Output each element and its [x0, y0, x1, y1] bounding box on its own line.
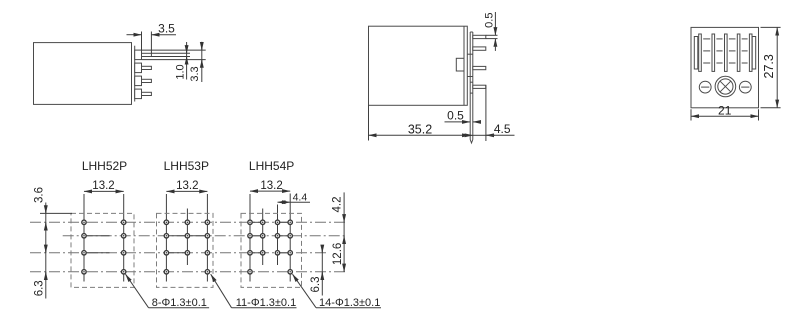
svg-text:4.4: 4.4 [293, 191, 308, 203]
svg-text:3.3: 3.3 [189, 66, 201, 81]
svg-text:13.2: 13.2 [260, 180, 282, 192]
svg-text:13.2: 13.2 [92, 180, 114, 192]
svg-text:0.5: 0.5 [447, 108, 464, 122]
svg-text:3.5: 3.5 [158, 21, 175, 35]
svg-text:LHH54P: LHH54P [249, 159, 294, 173]
svg-text:11-Φ1.3±0.1: 11-Φ1.3±0.1 [236, 297, 296, 309]
svg-text:14-Φ1.3±0.1: 14-Φ1.3±0.1 [319, 297, 380, 309]
svg-text:6.3: 6.3 [310, 277, 322, 293]
svg-text:LHH52P: LHH52P [82, 159, 127, 173]
svg-text:LHH53P: LHH53P [164, 159, 209, 173]
svg-text:12.6: 12.6 [332, 243, 344, 265]
svg-text:0.5: 0.5 [483, 13, 495, 28]
svg-text:8-Φ1.3±0.1: 8-Φ1.3±0.1 [152, 297, 207, 309]
svg-text:6.3: 6.3 [33, 280, 45, 296]
svg-text:35.2: 35.2 [408, 122, 432, 136]
svg-text:1.0: 1.0 [174, 64, 186, 79]
svg-text:4.5: 4.5 [494, 122, 511, 136]
svg-text:3.6: 3.6 [33, 187, 45, 203]
svg-text:13.2: 13.2 [176, 180, 198, 192]
svg-text:27.3: 27.3 [762, 54, 776, 78]
svg-text:21: 21 [718, 104, 732, 118]
svg-text:4.2: 4.2 [332, 197, 344, 213]
